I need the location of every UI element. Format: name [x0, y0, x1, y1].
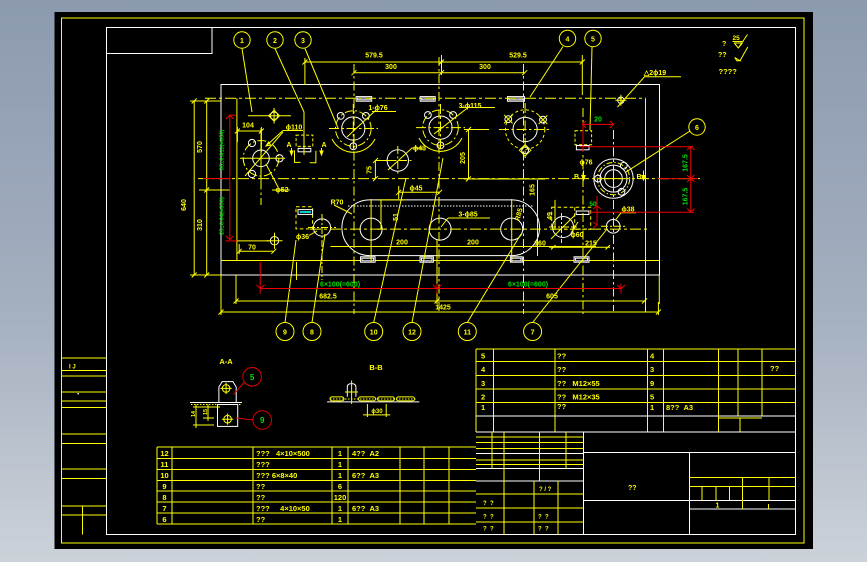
- sump right bore vertical centerline: [511, 199, 513, 262]
- bottom parts table texts: [160, 449, 346, 524]
- leader phi60: [571, 222, 578, 233]
- svg-text:15: 15: [203, 409, 209, 415]
- svg-text:B-B: B-B: [369, 363, 383, 372]
- svg-text:? ?: ? ?: [483, 515, 494, 521]
- dim line 579.5 / 529.5: [305, 55, 582, 95]
- svg-text:75: 75: [367, 166, 374, 174]
- section arrow B left: [582, 171, 585, 181]
- svg-text:? ?: ? ?: [538, 527, 549, 533]
- section arrow A left: [286, 142, 645, 181]
- svg-text:??: ??: [718, 52, 727, 59]
- svg-text:8: 8: [162, 493, 166, 502]
- right block yellow: [690, 477, 796, 486]
- top-left title strip box: [107, 28, 213, 54]
- title block top white line: [476, 431, 795, 433]
- bottom edge slot 4: [574, 257, 589, 262]
- obround bore left: [360, 218, 382, 240]
- A-A plate line: [190, 402, 242, 404]
- dowel pin symbol (diamond + hole): [248, 108, 291, 124]
- signature grid yellow: [476, 432, 795, 535]
- red vertical dim 50: [593, 196, 601, 228]
- leader balloon 2: [275, 49, 304, 156]
- svg-text:11: 11: [464, 330, 472, 337]
- svg-text:ϕ52: ϕ52: [275, 187, 288, 194]
- svg-text:??: ??: [557, 365, 567, 374]
- svg-text:??: ??: [770, 364, 780, 373]
- BOM texts: [481, 352, 780, 413]
- svg-text:1: 1: [338, 515, 342, 524]
- svg-text:ϕ30: ϕ30: [371, 409, 383, 415]
- top flange centerline: [205, 97, 646, 99]
- inspection-cover dashed rect (left, section A): [296, 135, 313, 146]
- yellow dimensions: [190, 55, 661, 315]
- dim 215 row: [549, 245, 610, 250]
- sump centerline: [310, 228, 648, 230]
- dim line 300 300: [354, 72, 525, 74]
- svg-text:6?? A3: 6?? A3: [352, 504, 379, 513]
- svg-text:167.5: 167.5: [683, 188, 690, 206]
- leader balloon 10b: [374, 178, 406, 323]
- drain hole left (phi36): [313, 219, 330, 236]
- left inner flange line: [236, 98, 238, 260]
- svg-text:9: 9: [260, 416, 265, 425]
- leader balloon 8b: [312, 234, 325, 323]
- yellow centerlines: [198, 57, 700, 314]
- leader balloon 4: [530, 47, 563, 98]
- red vertical dim left: [203, 115, 235, 239]
- A-A upper lug: [219, 382, 236, 403]
- leader balloon 5: [590, 47, 592, 130]
- dim line 682.5 / 605: [234, 299, 648, 304]
- leader phi36: [309, 231, 317, 236]
- oil hole phi60: [551, 215, 575, 239]
- surface finish symbol Ra25: [718, 35, 748, 77]
- dashed rect (bottom left): [296, 207, 313, 229]
- red bottom right horizontal: [590, 211, 694, 213]
- B-B belt ovals: [330, 397, 417, 401]
- svg-text:A-A: A-A: [219, 357, 233, 366]
- long vertical centerline C2: [353, 64, 355, 314]
- housing outer rectangle: [221, 85, 659, 275]
- svg-text:4: 4: [566, 37, 570, 44]
- svg-text:570: 570: [197, 141, 204, 153]
- balloons: [234, 30, 705, 340]
- balloon leaders: [242, 47, 690, 323]
- svg-text:5: 5: [650, 393, 654, 402]
- A-A lower block: [218, 405, 238, 427]
- B-B dim phi30: [363, 404, 390, 417]
- bearing assembly C5 (right, view B): [594, 159, 633, 198]
- svg-text:B: B: [574, 174, 579, 181]
- left margin revision column cells: [62, 358, 107, 535]
- leader balloon 7b: [533, 229, 607, 323]
- svg-text:8?? A3: 8?? A3: [666, 403, 693, 412]
- leader balloon 12b: [412, 158, 443, 323]
- top edge slot 2: [420, 97, 435, 102]
- svg-text:?? M12×35: ?? M12×35: [557, 393, 600, 402]
- svg-text:ϕ60: ϕ60: [570, 232, 583, 239]
- obround bore mid: [429, 218, 451, 240]
- svg-text:6: 6: [162, 515, 166, 524]
- svg-text:1: 1: [338, 504, 342, 513]
- svg-text:10: 10: [370, 330, 378, 337]
- section A cut line brackets: [295, 150, 316, 162]
- svg-text:7: 7: [162, 504, 166, 513]
- leader balloon 6: [626, 131, 690, 172]
- svg-text:??? 6×8×40: ??? 6×8×40: [256, 471, 297, 480]
- svg-text:? ?: ? ?: [538, 515, 549, 521]
- svg-text:200: 200: [396, 240, 408, 247]
- dim 130 horizontal: [396, 186, 442, 199]
- svg-text:??: ??: [256, 493, 266, 502]
- svg-text:11: 11: [161, 460, 169, 469]
- svg-text:3: 3: [481, 379, 485, 388]
- leader balloon 11b: [467, 234, 521, 323]
- svg-text:△2ϕ19: △2ϕ19: [643, 70, 666, 77]
- svg-text:? / ?: ? / ?: [539, 487, 552, 493]
- svg-text:12: 12: [408, 330, 416, 337]
- svg-text:R70: R70: [331, 200, 344, 207]
- leader phi52: [266, 164, 290, 190]
- leader phi38: [616, 213, 637, 220]
- svg-text:70: 70: [248, 245, 256, 252]
- svg-text:5: 5: [591, 37, 595, 44]
- svg-text:579.5: 579.5: [365, 53, 383, 60]
- svg-text:529.5: 529.5: [509, 53, 527, 60]
- top edge slot 1: [356, 97, 372, 102]
- obround bore right: [501, 218, 523, 240]
- svg-text:B: B: [636, 174, 641, 181]
- svg-text:?: ?: [722, 41, 726, 48]
- long vertical centerline C3: [438, 57, 440, 314]
- bottom edge slot 1: [361, 257, 376, 262]
- svg-text:50: 50: [589, 201, 597, 208]
- bottom edge slot 3: [510, 257, 522, 262]
- dim line 1425: [219, 310, 661, 315]
- leader balloon 1: [242, 49, 252, 113]
- leader phi110: [266, 131, 303, 147]
- svg-text:9: 9: [650, 379, 654, 388]
- section arrow A right: [320, 148, 323, 155]
- slot white (bottom right): [576, 211, 589, 215]
- svg-text:160: 160: [534, 241, 546, 248]
- svg-text:1425: 1425: [435, 305, 451, 312]
- svg-text:3: 3: [650, 365, 654, 374]
- dim 51 in sump: [377, 200, 405, 229]
- A-A lower bolt crosshair: [224, 415, 232, 423]
- svg-text:5: 5: [481, 352, 485, 361]
- green dim texts: [220, 117, 690, 289]
- cover centerline vertical: [582, 108, 584, 314]
- leader balloon 9b: [285, 240, 296, 323]
- svg-text:20: 20: [594, 117, 602, 124]
- svg-text:300: 300: [479, 64, 491, 71]
- svg-text:? ?: ? ?: [483, 501, 494, 507]
- svg-text:ϕ36: ϕ36: [296, 234, 309, 241]
- dim 165 vertical: [537, 180, 539, 256]
- svg-text:6: 6: [695, 125, 699, 132]
- cyan slot (bottom left): [298, 210, 313, 215]
- svg-text:205: 205: [460, 152, 467, 164]
- title block: [476, 432, 795, 535]
- dim 205 vertical: [464, 127, 545, 182]
- svg-text:3-ϕ115: 3-ϕ115: [459, 103, 482, 110]
- top bore C3: [416, 104, 470, 152]
- svg-text:3-ϕ85: 3-ϕ85: [458, 212, 477, 219]
- cover slot white (left): [298, 148, 311, 151]
- svg-text:605: 605: [546, 294, 558, 301]
- main shaft centerline: [198, 178, 700, 180]
- svg-text:ϕ45: ϕ45: [409, 186, 422, 193]
- section A-A view: [190, 357, 272, 429]
- svg-text:????: ????: [719, 67, 738, 76]
- svg-text:??: ??: [256, 482, 266, 491]
- svg-text:A: A: [321, 142, 326, 149]
- top bore C4: [499, 103, 551, 158]
- svg-text:10: 10: [160, 471, 168, 480]
- svg-text:6×100(=600): 6×100(=600): [508, 282, 548, 289]
- top bore C2: [329, 104, 378, 152]
- oil sump obround: [342, 200, 540, 256]
- dowel hole (70 dim): [225, 233, 282, 254]
- C1 vertical centerline: [260, 128, 262, 205]
- red horizontal 590: [580, 146, 693, 148]
- dim 75 vertical: [373, 158, 396, 181]
- dim 104: [235, 127, 264, 152]
- svg-text:??: ??: [628, 485, 637, 492]
- yellow dim texts: [181, 53, 666, 312]
- svg-text:104: 104: [242, 123, 254, 130]
- bottom parts table: [157, 447, 476, 524]
- sump left bore vertical centerline: [370, 199, 372, 262]
- left dim 570/310: [192, 99, 230, 278]
- svg-text:1: 1: [338, 471, 342, 480]
- red dimension group: [203, 115, 697, 293]
- svg-text:2: 2: [273, 38, 277, 45]
- B-B plate line: [327, 401, 419, 403]
- dim 49 vertical: [554, 200, 556, 229]
- svg-text:9: 9: [162, 482, 166, 491]
- svg-text:1: 1: [716, 503, 720, 510]
- svg-text:300: 300: [385, 64, 397, 71]
- svg-text:??: ??: [557, 352, 567, 361]
- svg-text:7: 7: [531, 330, 535, 337]
- svg-text:4?? A2: 4?? A2: [352, 449, 379, 458]
- balloon 9 red: [253, 411, 272, 430]
- svg-text:1: 1: [650, 403, 654, 412]
- svg-text:1: 1: [240, 38, 244, 45]
- svg-text:49: 49: [547, 212, 554, 220]
- svg-text:??: ??: [256, 515, 266, 524]
- boss phi43 circle: [384, 146, 424, 175]
- leader 3-phi85: [441, 218, 490, 227]
- svg-text:6?? A3: 6?? A3: [352, 471, 379, 480]
- left dim 640: [190, 101, 221, 275]
- svg-text:1: 1: [338, 449, 342, 458]
- svg-text:6: 6: [338, 482, 342, 491]
- leader 3-phi76: [372, 111, 396, 113]
- svg-text:310: 310: [197, 219, 204, 231]
- 2phi19 hole white: [618, 97, 624, 103]
- svg-text:? ?: ? ?: [483, 527, 494, 533]
- BOM bottom white line: [476, 415, 795, 417]
- cover slot white (right top): [576, 146, 589, 150]
- svg-text:A: A: [286, 142, 291, 149]
- BOM table upper right: [476, 349, 795, 432]
- leader R70: [334, 205, 352, 214]
- svg-text:14: 14: [191, 410, 197, 417]
- svg-text:??? 4×10×500: ??? 4×10×500: [256, 449, 310, 458]
- title white dividers: [476, 432, 795, 535]
- svg-text:I J: I J: [69, 365, 76, 371]
- red vertical right dim 167.5 pair: [658, 147, 697, 213]
- hole 560 crosshair: [549, 213, 577, 243]
- svg-text:??? 4×10×50: ??? 4×10×50: [256, 504, 310, 513]
- svg-text:25±0.04(=350): 25±0.04(=350): [220, 197, 226, 235]
- svg-text:3: 3: [301, 38, 305, 45]
- A-A hatch dotted: [191, 404, 241, 406]
- svg-text:12: 12: [160, 449, 168, 458]
- A-A small dims: [193, 405, 220, 429]
- svg-text:5: 5: [250, 373, 255, 382]
- top edge slot 3: [508, 97, 525, 102]
- leader balloon 3: [305, 49, 338, 129]
- svg-text:1: 1: [481, 403, 485, 412]
- inspection-cover dashed rect (right top): [575, 131, 592, 145]
- svg-text:640: 640: [181, 199, 188, 211]
- balloon 5 red: [243, 368, 262, 387]
- svg-text:682.5: 682.5: [319, 294, 337, 301]
- svg-text:35±0.011(=350): 35±0.011(=350): [220, 130, 226, 171]
- hole phi38: [606, 220, 620, 234]
- dim extension right of part: [645, 99, 647, 312]
- svg-text:165: 165: [530, 184, 537, 196]
- svg-text:?? M12×55: ?? M12×55: [557, 379, 600, 388]
- svg-text:???: ???: [256, 460, 270, 469]
- inner white sheet border: [107, 28, 796, 535]
- red dim 20 top right: [583, 121, 614, 152]
- svg-text:ϕ43: ϕ43: [413, 146, 426, 153]
- svg-text:1-ϕ76: 1-ϕ76: [368, 105, 387, 112]
- svg-text:ϕ110: ϕ110: [286, 125, 303, 132]
- section B-B view: [327, 363, 419, 417]
- leader 3-phi115: [460, 107, 495, 109]
- A-A upper bolt crosshair: [222, 385, 230, 393]
- svg-text:200: 200: [467, 240, 479, 247]
- svg-text:25: 25: [733, 35, 741, 42]
- bottom flange line (yellow): [221, 260, 659, 262]
- phi36 crosshair: [308, 214, 336, 280]
- C5 vertical centerline: [613, 130, 615, 311]
- svg-text:9: 9: [283, 330, 287, 337]
- left margin dot: [78, 393, 79, 394]
- svg-text:1: 1: [338, 460, 342, 469]
- long vertical centerline C4: [523, 64, 525, 314]
- svg-text:6×100(=600): 6×100(=600): [320, 282, 360, 289]
- main view: gearbox housing outline: [221, 85, 659, 275]
- svg-text:??: ??: [557, 402, 567, 411]
- obround inner dotted hatch line: [348, 205, 533, 207]
- svg-text:8: 8: [310, 330, 314, 337]
- svg-text:120: 120: [334, 493, 347, 502]
- svg-text:ϕ76: ϕ76: [579, 160, 592, 167]
- title block texts: [483, 485, 720, 533]
- svg-text:167.5: 167.5: [683, 154, 690, 172]
- bottom edge slot 2: [420, 257, 433, 262]
- bearing bore C1 (left): [240, 132, 285, 182]
- dim 200/200/160/150 row ticks: [331, 246, 597, 248]
- red bottom dim row 6x100: [256, 262, 625, 294]
- svg-text:2: 2: [481, 393, 485, 402]
- extension verticals bottom: [221, 240, 659, 315]
- dashed rect (bottom right, phi60): [552, 207, 591, 229]
- section arrow B right: [642, 171, 645, 181]
- B-B center bolt: [347, 384, 356, 397]
